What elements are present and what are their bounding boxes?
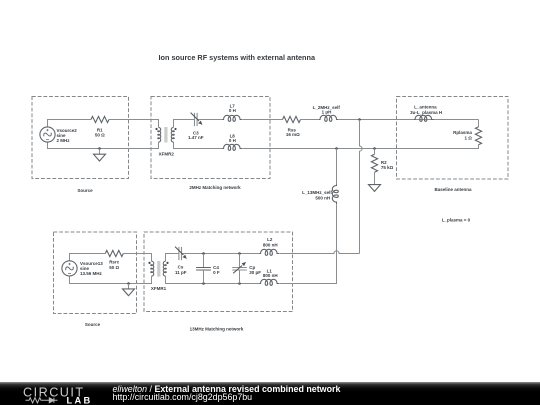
variable capacitor C3 [191, 113, 202, 127]
svg-text:1 Ω: 1 Ω [465, 135, 473, 140]
junction C4 top [202, 252, 205, 255]
transformer XFMR2 [155, 127, 176, 143]
variable capacitor Cs [175, 247, 186, 261]
junction C4 bottom [202, 282, 205, 285]
svg-text:75 kΩ: 75 kΩ [381, 165, 394, 170]
junction dot at 13MHz ground [127, 282, 130, 285]
wire R2 top lead [374, 149, 376, 155]
inductor L2 [260, 249, 280, 255]
wire Cp bottom stub [239, 270, 241, 284]
svg-text:30 pF: 30 pF [249, 270, 261, 275]
wire V2 top lead to R1 [48, 120, 92, 128]
svg-text:50 Ω: 50 Ω [95, 132, 105, 137]
svg-text:L_antenna: L_antenna [414, 105, 437, 110]
svg-text:Source: Source [85, 322, 101, 327]
junction Cp bottom [238, 282, 241, 285]
svg-text:L_13MHz_self: L_13MHz_self [302, 190, 332, 195]
wire ground stub (2MHz source) [99, 149, 101, 155]
junction dot at 2MHz ground [98, 147, 101, 150]
svg-text:13MHz Matching network: 13MHz Matching network [190, 327, 244, 332]
capacitor C4 [196, 268, 211, 271]
annotation box: 2MHz Source [32, 97, 129, 179]
svg-text:C4: C4 [213, 265, 219, 270]
resistor Rss [283, 116, 301, 122]
wire antenna top bend to Rplasma [478, 120, 480, 127]
junction node top wire to 13MHz feed [358, 118, 361, 121]
resistor Rplasma [475, 127, 481, 145]
annotation box: 13MHz Source [54, 232, 137, 314]
junction node bottom wire to L_13MHz_self [335, 147, 338, 150]
inductor L_2MHz_self [319, 115, 339, 121]
inductor L7 [223, 115, 243, 121]
wire junction to L_13MHz_self [336, 149, 338, 185]
wire XFMR1 secondary bottom to L1 [166, 276, 260, 283]
svg-text:2 MHz: 2 MHz [57, 138, 71, 143]
wire Cp top stub [239, 254, 241, 268]
voltage source Vsource2 [40, 127, 55, 142]
wire Cs to L2 (through C4, Cp taps) [182, 253, 260, 255]
CircuitLab logo [21, 381, 111, 405]
wire V13 bottom lead [70, 276, 152, 283]
wire L_2MHz_self to antenna (node through junction) [339, 119, 479, 121]
svg-text:XFMR1: XFMR1 [151, 286, 167, 291]
junction node bottom wire to R2 [373, 147, 376, 150]
ground symbol below R2 [369, 185, 381, 192]
svg-text:XFMR2: XFMR2 [159, 152, 175, 157]
wire ground stub (13MHz source) [128, 284, 130, 289]
svg-text:3u-L_plasma H: 3u-L_plasma H [410, 110, 442, 115]
wire XFMR2 primary bottom to V2 bottom [48, 142, 159, 149]
svg-text:0 H: 0 H [229, 138, 236, 143]
wire Rplasma bottom to bottom net [243, 145, 479, 149]
wire L2 to vertical feed (hops over L_13MHz branch) [280, 251, 360, 254]
annotation box: 2MHz Matching network [151, 97, 270, 179]
wire R2 bottom lead to ground [374, 172, 376, 184]
ground symbol (2MHz source) [94, 154, 106, 161]
inductor L8 [223, 144, 243, 150]
wire R1 to XFMR2 primary top [109, 120, 159, 128]
wire Rss to L_2MHz_self [301, 119, 320, 121]
footer title text [113, 385, 341, 402]
svg-text:1.47 nF: 1.47 nF [188, 135, 204, 140]
wire V13 top lead to Rsrc [70, 254, 106, 261]
wire L7 to Rss [243, 119, 283, 121]
resistor R1 [91, 116, 109, 122]
wire Rsrc to XFMR1 primary top [123, 254, 151, 262]
transformer XFMR1 [148, 261, 168, 277]
annotation box: 13MHz Matching network [144, 232, 293, 312]
wire XFMR1 secondary top to Cs [166, 254, 179, 262]
wire XFMR2 secondary top to C3 [174, 120, 195, 128]
svg-text:1 μH: 1 μH [322, 110, 332, 115]
wire C3 to L7 [197, 119, 222, 121]
svg-text:2MHz Matching network: 2MHz Matching network [189, 185, 241, 190]
resistor Rsrc [105, 250, 123, 256]
svg-text:Cp: Cp [249, 265, 255, 270]
svg-text:50 Ω: 50 Ω [109, 265, 119, 270]
annotation box: Baseline antenna [397, 97, 509, 180]
variable capacitor Cp [232, 262, 247, 273]
svg-text:LAB: LAB [67, 396, 93, 405]
svg-text:Cs: Cs [178, 265, 184, 270]
inductor L1 [260, 279, 280, 285]
inductor L_13MHz_self [332, 185, 338, 205]
ground symbol (13MHz source) [123, 289, 135, 296]
svg-text:500 nH: 500 nH [315, 195, 330, 200]
voltage source Vsource13 [62, 261, 77, 276]
svg-text:0 F: 0 F [213, 270, 220, 275]
wire L_13MHz_self to 13MHz bottom net [280, 205, 337, 284]
svg-text:L_plasma = 0: L_plasma = 0 [442, 218, 471, 223]
resistor R2 [371, 154, 377, 172]
svg-text:800 nH: 800 nH [263, 273, 278, 278]
svg-text:Baseline antenna: Baseline antenna [434, 187, 472, 192]
svg-text:Ion source RF systems with ext: Ion source RF systems with external ante… [159, 53, 316, 62]
wire L8 to XFMR2 secondary bottom [174, 142, 223, 148]
junction Cp top [238, 252, 241, 255]
svg-text:800 nH: 800 nH [263, 242, 278, 247]
svg-text:0 H: 0 H [229, 108, 236, 113]
svg-text:Source: Source [77, 188, 93, 193]
svg-text:13.56 MHz: 13.56 MHz [80, 271, 103, 276]
wire C4 top stub [203, 254, 205, 268]
svg-text:11 pF: 11 pF [175, 270, 187, 275]
wire vertical feed from top junction (hops over bottom net) [360, 120, 363, 254]
svg-text:16 mΩ: 16 mΩ [286, 132, 300, 137]
footer bar [0, 382, 540, 405]
inductor L_antenna [414, 115, 434, 121]
wire C4 bottom stub [203, 270, 205, 284]
svg-text:Rplasma: Rplasma [453, 130, 472, 135]
